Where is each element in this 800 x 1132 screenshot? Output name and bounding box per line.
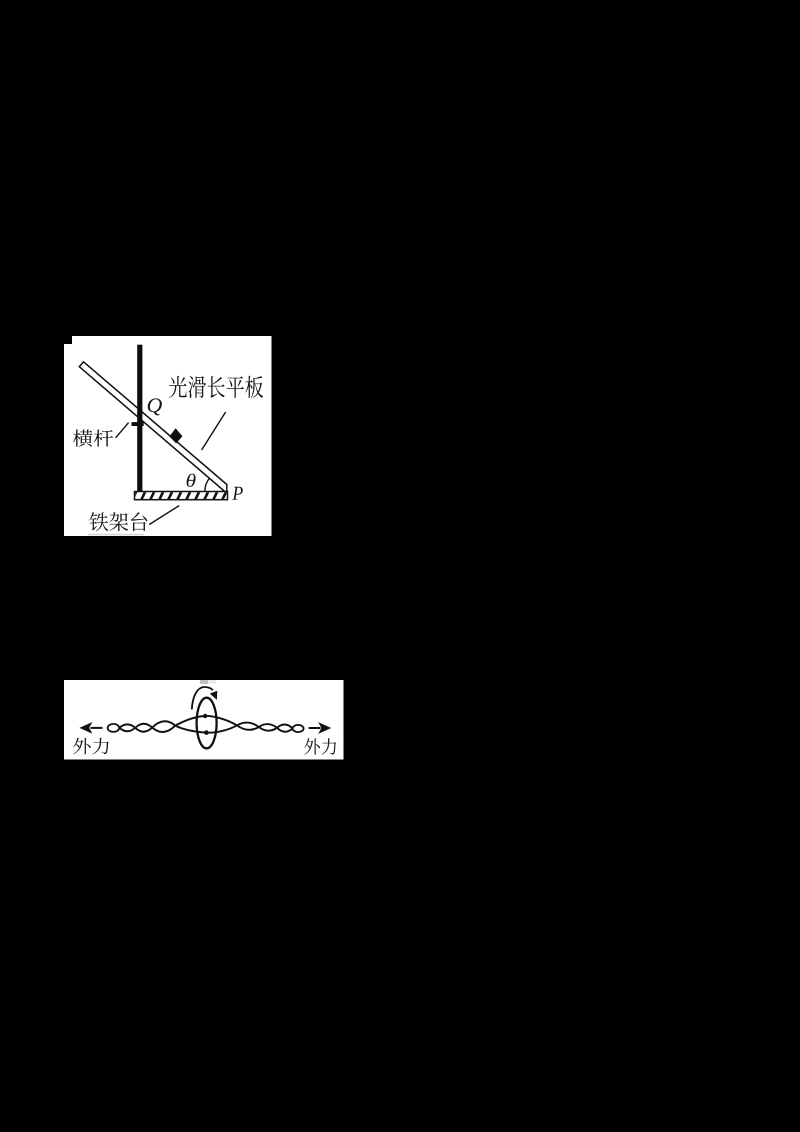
angle arc at P [205,478,210,491]
rope bottom strand through loop [175,725,237,732]
vertical rod of iron stand [137,345,142,492]
label 横杆 (cross rod) [73,430,113,447]
left pull arrow shaft [91,727,103,729]
central loop (ellipse) [197,698,217,749]
label 外力 left (external force) [73,738,109,755]
grey tab dark [200,680,208,684]
small black block on plank [169,428,182,443]
grey tab light [208,680,216,684]
left end ring of rope [108,724,120,732]
figure 2 panel background [64,680,344,760]
lower dot [204,730,209,735]
cross rod (横杆) clamp tick [132,422,144,426]
right rope twists [237,723,259,727]
label 铁架台 (iron stand) [89,512,147,531]
upper dot [203,714,207,718]
grey underline artifact below 铁架台 [88,534,144,536]
rotation arrow arc [192,687,213,710]
hatched base of iron stand [132,491,228,501]
leader line to iron stand label [149,506,179,525]
inclined board (smooth long plank) [79,362,227,493]
left pull arrow head [79,722,92,734]
label node Q [148,398,162,415]
leader line to cross rod label [116,423,129,438]
rotation arrow head [210,691,218,700]
right end ring of rope [293,725,304,732]
figure 1 panel background [64,336,272,536]
leader line to plank label [202,412,226,450]
figure 1 top-left black notch [64,336,72,344]
left rope twists [119,724,135,727]
label 外力 right (external force) [304,738,336,755]
label angle theta [187,474,196,487]
label node P [232,487,243,500]
rope top strand through loop [175,716,237,726]
right pull arrow head [318,722,331,734]
right pull arrow shaft [309,727,321,729]
label 光滑长平板 (smooth long board) [169,376,263,398]
